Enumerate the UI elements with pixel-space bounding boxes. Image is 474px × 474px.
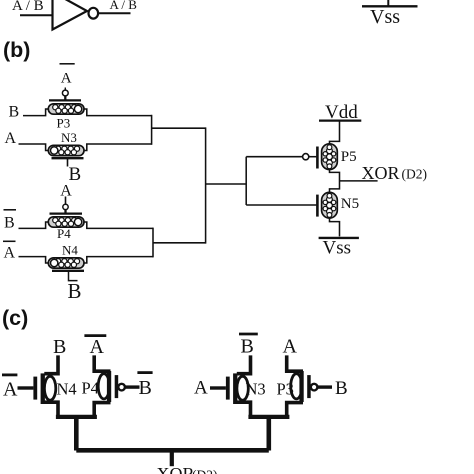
svg-text:(c): (c): [2, 306, 28, 330]
svg-text:B: B: [335, 378, 348, 399]
wire inverter output: [98, 12, 130, 14]
wire to long vertical lower: [153, 242, 206, 244]
inverter U1 triangle: [53, 0, 88, 30]
wire Abar to N4: [19, 257, 49, 263]
wire N5 to Vss: [330, 218, 340, 236]
svg-text:B: B: [139, 377, 152, 399]
wire A to N3: [19, 144, 49, 151]
wire to N5 gate: [246, 204, 316, 206]
svg-text:N3: N3: [246, 380, 266, 399]
svg-text:Vss: Vss: [370, 6, 400, 28]
svg-text:N4: N4: [57, 380, 77, 399]
svg-text:P4: P4: [57, 226, 71, 241]
wire N3 to join: [84, 144, 152, 151]
svg-text:XOR: XOR: [362, 163, 400, 183]
node Abar input N4: [3, 240, 16, 242]
transistor P5 channel: [322, 144, 338, 170]
transistor N4 gate bar: [52, 270, 84, 272]
wire output stub: [170, 450, 174, 466]
left pair N4 P4: [18, 355, 140, 450]
wire join P4-N4: [152, 228, 154, 258]
wire to P5 gate: [246, 156, 302, 158]
svg-text:(b): (b): [3, 38, 30, 62]
wire P3 to join: [84, 109, 152, 116]
bubble P5 gate: [303, 154, 309, 160]
svg-text:B: B: [4, 214, 15, 231]
svg-text:A / B: A / B: [12, 0, 44, 14]
transistor P3 gate bar: [49, 99, 81, 101]
transistor N5 channel: [322, 192, 338, 218]
transistor P3 channel: [48, 104, 84, 114]
wire inverter input: [20, 14, 53, 16]
svg-text:N3: N3: [61, 130, 77, 145]
ground Vss (section a): [387, 0, 389, 6]
wire gate node vertical: [245, 157, 247, 205]
svg-text:A: A: [283, 335, 298, 357]
svg-text:B: B: [68, 279, 82, 303]
transistor N3 gate bar: [52, 157, 84, 159]
svg-text:P4: P4: [82, 379, 99, 398]
wire N4 to join: [84, 257, 153, 263]
node Abar gate of P3: [60, 63, 75, 65]
wire B to P3: [23, 109, 49, 116]
node Abar gate of N4c: [2, 373, 17, 376]
svg-text:(D2): (D2): [402, 166, 428, 181]
svg-text:A / B: A / B: [110, 0, 138, 12]
transistor N3 channel: [48, 145, 84, 155]
svg-text:Vss: Vss: [323, 237, 352, 258]
svg-text:A: A: [90, 336, 105, 358]
wire output XOR: [340, 180, 378, 182]
node Bbar input P4: [4, 209, 17, 211]
wire Vdd to P5: [330, 121, 340, 144]
svg-text:B: B: [9, 104, 20, 121]
node Bbar gate of P4c: [137, 371, 152, 374]
svg-text:(D2): (D2): [192, 468, 218, 474]
wire join P3-N3: [151, 115, 153, 145]
transistor P5 gate bar: [316, 147, 319, 169]
right pair N3 P3: [210, 355, 332, 450]
svg-text:A: A: [4, 244, 16, 261]
transistor N4 channel: [48, 258, 84, 268]
svg-text:A: A: [3, 379, 18, 401]
svg-text:P5: P5: [341, 149, 357, 165]
svg-text:B: B: [241, 335, 254, 357]
svg-text:B: B: [53, 336, 66, 358]
wire middle to inverter: [206, 183, 247, 185]
wire long vertical: [205, 127, 207, 243]
wire output bus: [76, 448, 268, 453]
wire P5 to output node: [330, 170, 340, 193]
inverter U1 bubble: [89, 8, 99, 19]
wire Bbar to P4: [19, 222, 49, 228]
svg-text:A: A: [5, 130, 17, 147]
transistor N5 gate bar: [316, 195, 319, 217]
svg-text:N5: N5: [341, 196, 359, 212]
transistor P4 gate bar: [50, 212, 83, 214]
svg-text:XOR: XOR: [157, 464, 195, 474]
wire P4 to join: [84, 222, 153, 228]
node Abar drain of P4c: [84, 334, 106, 337]
svg-text:P3: P3: [57, 115, 71, 130]
ground Vss (section b): [319, 237, 359, 239]
svg-text:A: A: [61, 71, 72, 87]
node Bbar drain of N3c: [239, 333, 258, 336]
svg-text:P3: P3: [277, 380, 294, 399]
svg-text:N4: N4: [62, 243, 78, 258]
transistor P4 channel: [48, 217, 84, 227]
svg-text:A: A: [194, 378, 208, 399]
wire to long vertical: [152, 127, 206, 129]
svg-text:A: A: [60, 182, 72, 199]
